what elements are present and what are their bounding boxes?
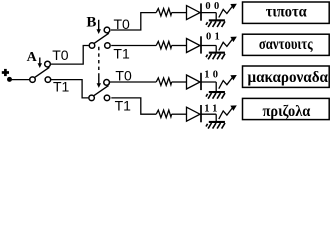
svg-text:00: 00 — [205, 1, 222, 12]
svg-text:σαντουιτς: σαντουιτς — [259, 36, 313, 53]
svg-text:τιποτα: τιποτα — [266, 3, 307, 20]
svg-text:πριζολα: πριζολα — [263, 103, 311, 120]
svg-text:T1: T1 — [113, 45, 130, 61]
svg-text:T0: T0 — [115, 67, 132, 83]
svg-text:T1: T1 — [115, 97, 132, 113]
svg-text:μακαροναδα: μακαροναδα — [248, 69, 329, 86]
svg-text:T0: T0 — [52, 47, 69, 63]
svg-text:A: A — [27, 50, 38, 65]
svg-text:01: 01 — [206, 32, 223, 43]
svg-text:T1: T1 — [53, 78, 70, 94]
svg-text:B: B — [86, 14, 96, 30]
svg-text:11: 11 — [204, 104, 221, 115]
svg-text:T0: T0 — [114, 16, 131, 32]
svg-text:10: 10 — [204, 69, 221, 80]
